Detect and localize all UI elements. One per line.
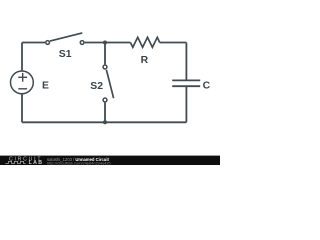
wire S2 branch upper [104, 43, 106, 65]
footer bar [0, 156, 220, 165]
wire right vertical lower [185, 87, 187, 122]
resistor R [130, 37, 159, 47]
voltage source E [11, 71, 34, 94]
switch S1 [46, 33, 84, 44]
wire top right (resistor to corner) [160, 42, 187, 44]
wire bottom [22, 121, 186, 123]
svg-text:S2: S2 [90, 81, 103, 92]
switch S2 [103, 65, 114, 102]
node junction top (S2 tap) [103, 41, 107, 45]
svg-text:R: R [141, 55, 149, 66]
svg-text:E: E [42, 80, 49, 91]
wire top-left horizontal [22, 42, 45, 44]
node junction bottom (S2 to bottom wire) [103, 120, 107, 124]
svg-text:http://circuitlab.com/c4e64n2y: http://circuitlab.com/c4e64n2y4y4z5 [47, 161, 111, 165]
wire S2 branch lower [104, 103, 106, 123]
wire right vertical upper [185, 43, 187, 80]
svg-text:S1: S1 [59, 49, 72, 60]
capacitor C [172, 80, 200, 86]
svg-text:C: C [203, 80, 211, 91]
wire left vertical [21, 43, 23, 71]
wire below source E [21, 94, 23, 122]
CircuitLab logo waveform [6, 161, 26, 163]
svg-text:LAB: LAB [29, 160, 44, 165]
wire top middle (S1 to resistor) [85, 42, 131, 44]
